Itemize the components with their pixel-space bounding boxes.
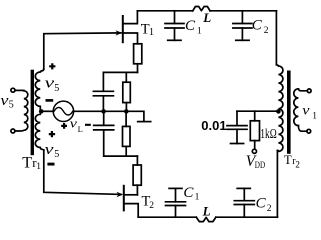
svg-text:DD: DD	[255, 160, 266, 170]
ground bar under C2	[236, 39, 249, 41]
label + (secondary bottom winding)	[49, 131, 55, 137]
svg-text:L: L	[202, 10, 211, 25]
wire: R2 to T2 source	[136, 185, 138, 195]
capacitor upper plates	[93, 91, 113, 96]
capacitor lower to lower node	[104, 130, 138, 156]
capacitor C2 bottom plates	[234, 201, 254, 205]
resistor 1k	[250, 121, 259, 141]
wire: Tr1 secondary bottom to T2 gate	[44, 150, 121, 194]
transformer Tr1 primary winding	[24, 91, 28, 131]
transformer Tr1 core	[31, 70, 34, 156]
resistor RA	[123, 82, 131, 102]
node dot: bus resistor junction	[124, 109, 129, 114]
wire: lower node to R2	[136, 156, 138, 165]
capacitor lower stub	[103, 111, 105, 125]
transformer Tr1 primary terminal bottom	[11, 129, 15, 133]
transformer Tr2 secondary winding	[294, 89, 299, 126]
wire: RA to bus	[125, 103, 127, 112]
wire: upper node horizontal	[103, 71, 137, 73]
transformer Tr1 secondary bottom winding	[35, 113, 44, 150]
wire: 1k to VDD terminal	[254, 141, 256, 150]
resistor R2 (T2 source)	[133, 165, 141, 185]
svg-text:5: 5	[54, 149, 59, 160]
source vL circle	[53, 101, 73, 121]
transformer Tr2 primary winding	[276, 65, 283, 152]
transistor T1 source tap	[124, 33, 138, 44]
wire: top rail right segment	[210, 10, 276, 12]
label - (secondary top winding)	[46, 99, 54, 102]
svg-text:C: C	[256, 195, 267, 211]
wire: RB to lower node	[125, 146, 127, 156]
svg-text:C: C	[252, 18, 263, 34]
svg-text:2: 2	[149, 201, 154, 211]
resistor RB	[123, 126, 131, 146]
svg-text:0.01: 0.01	[201, 118, 226, 133]
wire: Tr2 secondary top to terminal	[298, 89, 307, 91]
svg-text:v: v	[302, 104, 310, 119]
capacitor C2 lower stub	[241, 28, 243, 40]
capacitor C2 top stub	[241, 11, 243, 24]
svg-text:2: 2	[264, 26, 269, 36]
wire: terminal to primary coil	[15, 89, 24, 91]
plus/minus marks	[46, 63, 91, 164]
capacitor C1 bottom plates	[166, 202, 186, 206]
svg-text:1: 1	[36, 162, 41, 172]
svg-text:C: C	[185, 18, 196, 34]
svg-text:T: T	[284, 153, 292, 167]
svg-text:1: 1	[312, 111, 317, 121]
bottom ground bar over C1	[169, 187, 182, 189]
svg-text:T: T	[22, 154, 32, 171]
transistor T1 gate arrowhead	[116, 30, 123, 35]
inductor L bottom	[196, 217, 216, 221]
transistor T2 gate arrowhead	[117, 192, 124, 197]
label - (vL source)	[85, 124, 91, 126]
capacitor C1 plates	[165, 24, 184, 29]
svg-text:2: 2	[267, 204, 272, 214]
wire: 1k resistor top stub	[254, 111, 256, 121]
wire: bottom rail rise to Tr2	[276, 151, 278, 218]
terminal v1 top	[307, 89, 311, 93]
wire: Tr2 tap to bypass network	[237, 110, 278, 112]
terminal v1 bottom	[307, 129, 311, 133]
wire: R1 to node wire	[137, 64, 139, 73]
svg-text:1: 1	[195, 192, 200, 202]
wire: primary coil to bottom terminal	[15, 129, 24, 132]
svg-text:v: v	[45, 142, 54, 158]
capacitor C1 top stub	[174, 11, 176, 24]
svg-text:C: C	[183, 185, 194, 201]
transistor T2 channel bar	[123, 186, 125, 211]
svg-text:1: 1	[149, 27, 154, 38]
wire: upper node to resistor RA	[125, 72, 127, 82]
capacitor C1 bottom upper stub	[175, 188, 177, 201]
transistor T2 drain tap	[125, 204, 139, 218]
capacitor C2 plates	[233, 24, 252, 29]
capacitor upper (middle block) stub	[102, 72, 104, 91]
transistor T1 channel bar	[122, 16, 124, 42]
transistor T2 source tap	[125, 194, 138, 196]
wire: Tr2 secondary bottom to terminal	[298, 126, 307, 132]
svg-text:v: v	[45, 75, 55, 91]
label + (vL source)	[61, 123, 67, 129]
capacitor C2 bottom to rail	[243, 205, 245, 218]
node dot: Tr1 center tap	[39, 109, 44, 114]
ground bar (middle)	[138, 121, 151, 123]
wire: bus from source to ground	[74, 111, 144, 121]
node dot: Tr2 tap	[276, 109, 281, 114]
capacitor lower plates	[94, 125, 114, 129]
capacitor 0.01 plates	[227, 126, 247, 130]
transistor T1 drain tap	[124, 11, 138, 24]
svg-text:5: 5	[54, 83, 59, 94]
resistor R1 (T1 source)	[134, 44, 142, 64]
transformer Tr2 core	[287, 71, 291, 154]
svg-text:1: 1	[197, 26, 202, 36]
label - (secondary bottom winding)	[47, 163, 54, 166]
svg-text:2: 2	[295, 159, 300, 169]
node dot: bus capacitor junction	[101, 109, 106, 114]
wire: bottom rail right segment	[216, 216, 278, 218]
svg-text:v: v	[70, 117, 78, 131]
capacitor upper to bus	[102, 96, 104, 112]
svg-text:v: v	[0, 93, 8, 109]
label + (secondary top winding)	[49, 63, 55, 69]
capacitor 0.01 stub	[236, 111, 238, 125]
capacitor C1 lower stub	[174, 28, 176, 40]
source vL sine	[54, 107, 73, 115]
ground bar under C1	[168, 39, 181, 41]
transformer Tr1 primary terminal top	[11, 88, 15, 92]
capacitor 0.01 lower stub	[236, 129, 238, 143]
bottom ground bar over C2	[237, 187, 250, 189]
svg-text:L: L	[78, 124, 83, 134]
capacitor C2 bottom upper stub	[243, 188, 245, 200]
wire: top rail left segment	[137, 10, 192, 12]
terminal VDD	[252, 149, 256, 153]
svg-text:L: L	[202, 204, 211, 219]
svg-text:1kΩ: 1kΩ	[260, 126, 277, 141]
wire: bus to resistor RB	[125, 111, 127, 126]
wire: center tap to source circle	[42, 110, 54, 112]
ground bar under 0.01	[231, 143, 244, 145]
wire: top rail drop to Tr2	[275, 11, 277, 65]
transformer Tr1 secondary top winding	[35, 69, 43, 110]
capacitor C1 bottom to rail	[175, 206, 177, 218]
wire: bottom rail left segment	[138, 216, 196, 218]
wire: Tr1 secondary top to T1 gate	[44, 33, 121, 69]
svg-text:5: 5	[9, 99, 14, 110]
inductor L top	[193, 6, 210, 10]
